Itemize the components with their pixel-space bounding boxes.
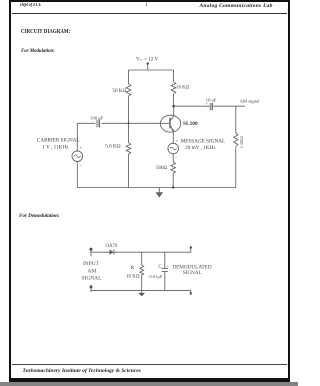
- footer rule: [12, 363, 288, 366]
- Vcc node dot: [147, 62, 149, 64]
- header rule: [12, 12, 288, 15]
- svg-text:-: -: [80, 164, 82, 169]
- input terminal top: [90, 248, 92, 256]
- svg-text:+: +: [80, 145, 83, 150]
- C branch lower wire: [164, 272, 166, 291]
- left branch upper wire: [128, 70, 130, 84]
- svg-text:SL100: SL100: [183, 121, 198, 127]
- demod bottom wire: [91, 289, 191, 291]
- svg-text:MESSAGE SIGNAL: MESSAGE SIGNAL: [181, 139, 226, 145]
- resistor 5.6 KOhm: [126, 143, 131, 154]
- resistor 10 KOhm: [171, 82, 176, 94]
- wire source to emitter resistor: [172, 154, 174, 162]
- output terminal top: [190, 246, 192, 252]
- R branch upper wire: [141, 252, 143, 265]
- svg-text:+: +: [167, 264, 169, 268]
- resistor 56 KOhm: [126, 84, 131, 96]
- svg-text:1.5KΩ: 1.5KΩ: [239, 136, 244, 149]
- wire resistor to bottom rail: [172, 173, 174, 187]
- svg-text:R: R: [131, 266, 135, 271]
- output terminal bottom: [190, 290, 192, 295]
- resistor R 10 KOhm: [140, 265, 144, 275]
- ground symbol: [158, 188, 160, 194]
- demod top wire: [91, 251, 191, 253]
- diode D1: [110, 250, 114, 255]
- subtitle: For Demodulation:: [19, 213, 60, 219]
- transistor Q1 SL100: [160, 115, 180, 132]
- svg-text:10 KΩ: 10 KΩ: [176, 85, 189, 90]
- demod ground: [141, 290, 143, 294]
- svg-text:-: -: [175, 156, 177, 161]
- svg-text:OA79: OA79: [106, 244, 118, 249]
- resistor 560 Ohm: [171, 162, 176, 173]
- C branch upper wire: [164, 252, 166, 268]
- carrier source riser wire: [76, 123, 78, 151]
- svg-text:Vcc = 12 V: Vcc = 12 V: [136, 57, 159, 62]
- message source V2: [168, 143, 179, 154]
- base line junction: [128, 122, 130, 124]
- carrier source V1: [72, 151, 83, 162]
- collector output wire: [174, 105, 210, 107]
- svg-text:SIGNAL: SIGNAL: [183, 270, 202, 276]
- bottom rail wire: [77, 187, 236, 189]
- svg-text:20 mV , 1KHz: 20 mV , 1KHz: [185, 145, 216, 151]
- right load branch lower wire: [235, 147, 237, 188]
- wire carrier to capacitor: [77, 122, 95, 124]
- svg-text:0.01μF: 0.01μF: [149, 274, 163, 279]
- subtitle: For Modulation:: [21, 48, 55, 54]
- output wire to AM node: [213, 105, 245, 107]
- svg-text:1 V , 11KHz: 1 V , 11KHz: [42, 144, 69, 150]
- svg-text:CARRIER SIGNAL: CARRIER SIGNAL: [37, 138, 80, 144]
- svg-text:SIGNAL: SIGNAL: [82, 275, 102, 281]
- left branch middle wire: [128, 96, 130, 143]
- header left: Dept of ECE: [20, 3, 41, 8]
- svg-text:+: +: [206, 102, 208, 106]
- svg-text:560Ω: 560Ω: [156, 166, 168, 171]
- svg-text:AM: AM: [88, 268, 97, 274]
- emitter lead wire: [172, 131, 174, 144]
- svg-text:56 KΩ: 56 KΩ: [112, 88, 126, 94]
- svg-text:AM signal: AM signal: [240, 98, 260, 103]
- right load branch upper wire: [235, 106, 237, 133]
- header center: page number 1: [145, 3, 148, 8]
- Vcc stem wire: [147, 64, 149, 70]
- right branch upper wire: [173, 70, 175, 82]
- emitter branch junction: [172, 186, 174, 188]
- input terminal bottom: [90, 286, 93, 289]
- right branch wire to collector node: [173, 94, 175, 106]
- svg-text:INPUT: INPUT: [83, 261, 100, 267]
- svg-text:+: +: [176, 138, 179, 143]
- base wire: [102, 122, 171, 124]
- carrier source lower wire: [76, 162, 78, 188]
- svg-text:10 KΩ: 10 KΩ: [126, 275, 140, 280]
- header right: Analog Communications Lab: [200, 3, 273, 9]
- collector node junction: [172, 105, 175, 108]
- title: CIRCUIT DIAGRAM:: [21, 28, 70, 35]
- top rail wire: [129, 69, 174, 71]
- footer: institute name: [23, 368, 141, 374]
- R branch lower wire: [141, 275, 143, 290]
- transistor Q1 collector lead: [173, 106, 175, 116]
- svg-text:C: C: [158, 265, 162, 270]
- svg-text:5.6 KΩ: 5.6 KΩ: [105, 144, 121, 150]
- left branch lower wire: [128, 154, 130, 187]
- load resistor (slanted): [234, 133, 238, 146]
